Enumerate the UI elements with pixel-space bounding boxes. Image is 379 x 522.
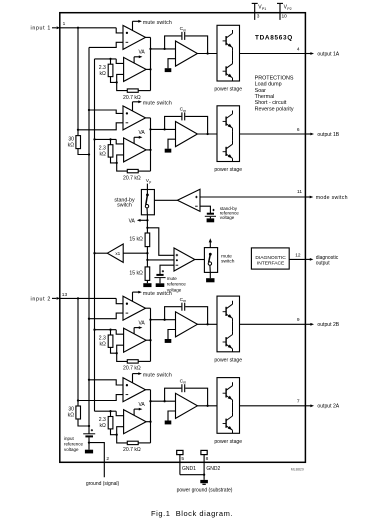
svg-text:10: 10	[282, 14, 288, 20]
svg-text:switch: switch	[117, 202, 132, 208]
svg-text:Fig.1 Block diagram.: Fig.1 Block diagram.	[151, 509, 233, 518]
svg-text:voltage: voltage	[64, 447, 79, 452]
svg-text:reference: reference	[167, 282, 187, 287]
svg-text:kΩ: kΩ	[68, 142, 75, 148]
svg-text:20.7 kΩ: 20.7 kΩ	[123, 447, 141, 453]
svg-text:GND2: GND2	[206, 466, 220, 472]
svg-text:output 2A: output 2A	[317, 404, 339, 410]
svg-text:VA: VA	[129, 218, 136, 224]
svg-text:12: 12	[295, 252, 301, 258]
svg-text:MLB829: MLB829	[291, 467, 304, 471]
svg-text:2: 2	[106, 456, 109, 462]
svg-text:Soar: Soar	[255, 88, 267, 94]
svg-text:11: 11	[297, 189, 302, 195]
svg-text:20.7 kΩ: 20.7 kΩ	[123, 95, 141, 101]
svg-text:GND1: GND1	[182, 466, 196, 472]
svg-text:voltage: voltage	[167, 287, 182, 292]
svg-text:kΩ: kΩ	[68, 413, 75, 419]
svg-text:20.7 kΩ: 20.7 kΩ	[123, 366, 141, 372]
svg-text:x1: x1	[115, 251, 120, 256]
svg-text:PROTECTIONS: PROTECTIONS	[255, 75, 294, 81]
svg-text:power stage: power stage	[214, 439, 242, 445]
svg-text:VA: VA	[138, 130, 145, 136]
svg-text:15 kΩ: 15 kΩ	[129, 271, 143, 277]
svg-text:4: 4	[297, 46, 300, 52]
svg-text:input 1: input 1	[31, 26, 51, 32]
svg-text:kΩ: kΩ	[99, 71, 106, 77]
svg-text:voltage: voltage	[220, 215, 235, 220]
svg-text:m: m	[183, 381, 186, 385]
svg-text:power stage: power stage	[214, 167, 242, 173]
svg-text:Thermal: Thermal	[255, 94, 275, 100]
svg-text:6: 6	[297, 127, 300, 133]
svg-text:Load dump: Load dump	[255, 82, 282, 88]
svg-text:1: 1	[63, 21, 66, 27]
svg-text:7: 7	[297, 399, 300, 405]
svg-text:output 1B: output 1B	[317, 132, 339, 138]
svg-text:input: input	[64, 436, 75, 441]
svg-text:reference: reference	[64, 441, 84, 446]
svg-text:m: m	[183, 109, 186, 113]
svg-text:Reverse polarity: Reverse polarity	[255, 106, 294, 112]
svg-text:input 2: input 2	[31, 296, 51, 302]
svg-text:ground (signal): ground (signal)	[86, 481, 120, 487]
svg-text:13: 13	[62, 292, 68, 298]
svg-text:VA: VA	[138, 50, 145, 56]
svg-text:mute switch: mute switch	[143, 372, 172, 378]
svg-text:kΩ: kΩ	[99, 151, 106, 157]
svg-text:DIAGNOSTIC: DIAGNOSTIC	[255, 255, 286, 261]
svg-text:mute switch: mute switch	[143, 20, 172, 26]
svg-text:m: m	[183, 28, 186, 32]
svg-text:P2: P2	[287, 7, 291, 11]
svg-text:output 1A: output 1A	[317, 51, 339, 57]
svg-text:power stage: power stage	[214, 87, 242, 93]
svg-text:TDA8563Q: TDA8563Q	[255, 35, 293, 42]
svg-text:mute: mute	[167, 276, 178, 281]
svg-text:m: m	[183, 299, 186, 303]
svg-text:20.7 kΩ: 20.7 kΩ	[123, 175, 141, 181]
svg-text:output 2B: output 2B	[317, 322, 339, 328]
svg-text:switch: switch	[221, 259, 235, 265]
svg-text:kΩ: kΩ	[99, 423, 106, 429]
svg-text:mute switch: mute switch	[143, 101, 172, 107]
svg-text:3: 3	[257, 14, 260, 20]
svg-text:Short - circuit: Short - circuit	[255, 100, 287, 106]
svg-text:mode switch: mode switch	[316, 195, 348, 201]
svg-text:kΩ: kΩ	[99, 342, 106, 348]
svg-text:VA: VA	[138, 402, 145, 408]
svg-text:power ground (substrate): power ground (substrate)	[177, 487, 233, 493]
svg-text:15 kΩ: 15 kΩ	[129, 237, 143, 243]
svg-text:output: output	[316, 260, 331, 266]
svg-text:5: 5	[181, 456, 184, 462]
svg-text:INTERFACE: INTERFACE	[257, 260, 285, 266]
svg-text:power stage: power stage	[214, 357, 242, 363]
svg-text:VA: VA	[138, 321, 145, 327]
svg-text:8: 8	[206, 456, 209, 462]
svg-text:9: 9	[297, 317, 300, 323]
svg-text:p: p	[149, 180, 151, 184]
svg-text:P1: P1	[262, 7, 266, 11]
